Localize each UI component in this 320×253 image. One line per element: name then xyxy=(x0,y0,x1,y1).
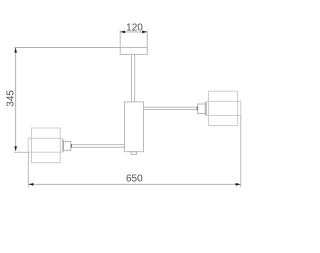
extension line left (120) xyxy=(119,30,121,47)
central body xyxy=(125,102,144,152)
left shade outer rectangle xyxy=(32,128,61,163)
dimension line 120 xyxy=(120,31,147,33)
arrowhead right (120) xyxy=(142,31,147,34)
svg-text:650: 650 xyxy=(126,174,143,185)
svg-text:345: 345 xyxy=(5,90,16,107)
right arm lower line xyxy=(144,109,197,111)
arrowhead left (120) xyxy=(120,31,125,34)
right socket cup xyxy=(198,104,206,114)
right arm upper line xyxy=(144,106,197,108)
stem right line xyxy=(134,54,136,102)
extension line bottom (345) xyxy=(14,151,29,153)
stem left line xyxy=(130,54,132,102)
right socket bar xyxy=(197,106,198,110)
extension line right (120) xyxy=(146,30,148,47)
right shade wide rectangle xyxy=(207,101,241,115)
left socket bar xyxy=(71,144,72,148)
arrowhead left (650) xyxy=(29,183,34,186)
left shade wide rectangle xyxy=(28,138,62,152)
bottom finial cap xyxy=(131,152,137,155)
right shade outer rectangle xyxy=(209,91,238,125)
dimension line 650 xyxy=(29,183,241,185)
arrowhead bottom (345) xyxy=(14,146,17,151)
right socket ring xyxy=(205,103,206,115)
left socket ring xyxy=(62,140,63,151)
arrowhead right (650) xyxy=(236,183,241,186)
left arm lower line xyxy=(72,146,125,148)
extension line top (345, ceiling level) xyxy=(14,47,120,49)
ceiling canopy xyxy=(120,47,147,54)
left socket cup xyxy=(64,141,71,150)
extension line left (650) xyxy=(27,152,29,187)
extension line right (650) xyxy=(240,115,242,187)
arrowhead top (345) xyxy=(14,48,17,53)
left arm upper line xyxy=(72,144,125,146)
dimension line 345 xyxy=(15,48,17,151)
